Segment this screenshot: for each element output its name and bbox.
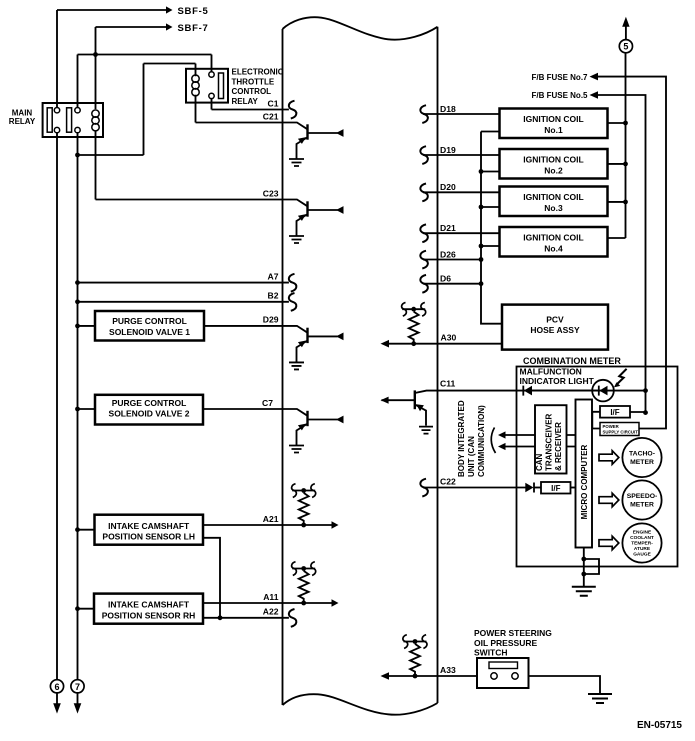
svg-text:SBF-5: SBF-5 (178, 6, 209, 17)
svg-text:COMMUNICATION): COMMUNICATION) (477, 405, 486, 477)
svg-text:PURGE CONTROL: PURGE CONTROL (112, 398, 187, 408)
svg-text:ATURE: ATURE (634, 546, 651, 552)
svg-text:SWITCH: SWITCH (474, 648, 508, 658)
svg-text:A33: A33 (440, 665, 456, 675)
svg-text:C21: C21 (263, 111, 279, 121)
svg-text:IGNITION COIL: IGNITION COIL (523, 233, 583, 243)
svg-text:SOLENOID VALVE 1: SOLENOID VALVE 1 (109, 327, 190, 337)
svg-text:5: 5 (623, 42, 628, 52)
svg-text:SBF-7: SBF-7 (178, 23, 209, 34)
svg-text:MALFUNCTION: MALFUNCTION (520, 367, 582, 377)
svg-text:MICRO COMPUTER: MICRO COMPUTER (580, 444, 589, 519)
svg-text:F/B FUSE No.5: F/B FUSE No.5 (531, 91, 588, 100)
svg-text:ELECTRONIC: ELECTRONIC (232, 68, 284, 77)
svg-text:D21: D21 (440, 223, 456, 233)
svg-text:C22: C22 (440, 476, 456, 486)
svg-text:IGNITION COIL: IGNITION COIL (523, 155, 583, 165)
svg-text:D29: D29 (263, 315, 279, 325)
svg-text:BODY INTEGRATED: BODY INTEGRATED (457, 400, 466, 477)
svg-text:SOLENOID VALVE 2: SOLENOID VALVE 2 (109, 409, 190, 419)
svg-text:INTAKE CAMSHAFT: INTAKE CAMSHAFT (108, 600, 190, 610)
svg-text:PURGE CONTROL: PURGE CONTROL (112, 316, 187, 326)
svg-text:A30: A30 (441, 333, 457, 343)
svg-text:GAUGE: GAUGE (633, 551, 651, 557)
svg-text:6: 6 (54, 682, 59, 692)
svg-text:7: 7 (75, 682, 80, 692)
svg-text:No.4: No.4 (544, 244, 563, 254)
svg-text:& RECEIVER: & RECEIVER (554, 422, 563, 471)
svg-text:A11: A11 (263, 592, 279, 602)
svg-text:METER: METER (630, 501, 654, 508)
svg-text:D20: D20 (440, 182, 456, 192)
svg-text:ENGINE: ENGINE (633, 529, 652, 535)
svg-text:RELAY: RELAY (9, 117, 36, 126)
svg-text:SUPPLY CIRCUIT: SUPPLY CIRCUIT (603, 429, 639, 434)
svg-text:HOSE ASSY: HOSE ASSY (530, 325, 580, 335)
svg-text:INTAKE CAMSHAFT: INTAKE CAMSHAFT (108, 521, 190, 531)
svg-text:POSITION SENSOR LH: POSITION SENSOR LH (102, 531, 195, 541)
svg-text:A22: A22 (263, 607, 279, 617)
svg-text:CONTROL: CONTROL (232, 87, 272, 96)
svg-text:C11: C11 (440, 378, 456, 388)
svg-text:IGNITION COIL: IGNITION COIL (523, 114, 583, 124)
svg-text:F/B FUSE No.7: F/B FUSE No.7 (531, 73, 588, 82)
svg-text:D18: D18 (440, 104, 456, 114)
svg-text:D19: D19 (440, 145, 456, 155)
svg-text:PCV: PCV (546, 315, 564, 325)
svg-text:IGNITION COIL: IGNITION COIL (523, 192, 583, 202)
svg-text:TEMPER-: TEMPER- (631, 540, 653, 546)
svg-text:COMBINATION METER: COMBINATION METER (523, 356, 621, 366)
svg-text:SPEEDO-: SPEEDO- (627, 493, 658, 500)
svg-text:D26: D26 (440, 249, 456, 259)
svg-text:POWER: POWER (603, 424, 620, 429)
svg-text:UNIT (CAN: UNIT (CAN (467, 436, 476, 477)
svg-text:C1: C1 (268, 98, 279, 108)
svg-text:No.2: No.2 (544, 166, 563, 176)
svg-text:I/F: I/F (551, 484, 560, 493)
svg-text:A7: A7 (268, 271, 279, 281)
svg-text:INDICATOR LIGHT: INDICATOR LIGHT (520, 376, 595, 386)
svg-text:A21: A21 (263, 514, 279, 524)
svg-text:I/F: I/F (610, 408, 619, 417)
svg-text:POSITION SENSOR RH: POSITION SENSOR RH (102, 610, 196, 620)
svg-text:OIL PRESSURE: OIL PRESSURE (474, 638, 537, 648)
svg-text:C7: C7 (262, 398, 273, 408)
svg-text:CAN: CAN (535, 453, 544, 471)
svg-text:THROTTLE: THROTTLE (232, 77, 275, 86)
svg-text:TACHO-: TACHO- (629, 450, 655, 457)
svg-text:POWER STEERING: POWER STEERING (474, 628, 552, 638)
svg-text:B2: B2 (268, 291, 279, 301)
svg-text:No.3: No.3 (544, 203, 563, 213)
svg-text:TRANSCEIVER: TRANSCEIVER (544, 413, 553, 471)
svg-text:No.1: No.1 (544, 125, 563, 135)
svg-text:RELAY: RELAY (232, 97, 259, 106)
svg-text:EN-05715: EN-05715 (637, 720, 682, 731)
svg-text:C23: C23 (263, 188, 279, 198)
svg-text:D6: D6 (440, 274, 451, 284)
svg-text:METER: METER (630, 459, 654, 466)
svg-text:COOLANT: COOLANT (630, 535, 654, 541)
